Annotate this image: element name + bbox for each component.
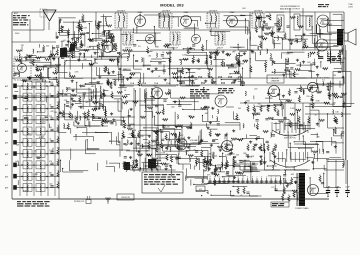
wire: [73, 37, 80, 39]
junction: [135, 90, 136, 91]
switch contact: [21, 85, 22, 86]
capacitor C58: [197, 60, 200, 61]
wire: [275, 37, 283, 39]
wire: [342, 29, 345, 31]
capacitor C77: [109, 59, 112, 60]
wire: [311, 134, 318, 136]
switch contact: [33, 108, 34, 109]
wire: [12, 95, 120, 97]
wire: [168, 68, 190, 70]
svg-text:1ST FM IF: 1ST FM IF: [117, 11, 126, 13]
coil L116: [185, 176, 186, 180]
wire: [314, 46, 338, 48]
resistor R204: [298, 95, 300, 102]
resistor R225: [214, 178, 216, 185]
wire: [313, 154, 315, 158]
junction: [327, 113, 328, 114]
ground: [208, 167, 211, 170]
resistor R172: [206, 162, 212, 164]
coil L73: [66, 87, 67, 91]
coil L60: [273, 40, 274, 44]
ground: [191, 75, 194, 78]
capacitor C31: [246, 192, 249, 193]
wire: [50, 62, 52, 68]
capacitor C112: [176, 158, 179, 159]
wire: [96, 25, 106, 27]
wire: [77, 111, 79, 120]
tuner coil L_t6b: [40, 151, 41, 158]
resistor R127: [89, 63, 95, 65]
wire: [207, 109, 209, 121]
wire: [90, 89, 92, 101]
resistor R10: [57, 113, 59, 120]
terminal blob: [13, 140, 17, 145]
resistor R191: [268, 117, 274, 119]
junction: [269, 96, 270, 97]
wire: [23, 57, 45, 59]
resistor R95: [276, 25, 282, 27]
wire: [298, 124, 300, 141]
resistor R155: [186, 127, 192, 129]
ground: [254, 143, 257, 146]
wire: [311, 71, 313, 78]
junction: [228, 67, 229, 68]
wire: [222, 176, 235, 178]
tuner coil L_t9b: [40, 185, 41, 192]
svg-text:2!/A: 2!/A: [228, 76, 233, 79]
switch contact: [21, 119, 22, 120]
resistor R247: [214, 174, 220, 176]
wire: [250, 170, 260, 172]
resistor R118: [27, 55, 32, 57]
wire: [128, 50, 153, 52]
junction: [310, 177, 311, 178]
wire: [28, 76, 51, 78]
ground: [77, 122, 80, 125]
coil L135: [323, 149, 324, 153]
ground: [165, 167, 168, 170]
wire: [223, 20, 249, 22]
tuner section box: [36, 93, 45, 101]
wire: [137, 168, 139, 170]
resistor R92: [258, 36, 264, 38]
wire: [103, 94, 105, 111]
ground: [229, 152, 232, 155]
capacitor C44: [161, 55, 164, 56]
wire: [314, 12, 316, 50]
svg-text:.002: .002: [204, 113, 208, 115]
svg-text:120K: 120K: [33, 174, 38, 176]
junction: [290, 143, 291, 144]
resistor R241: [71, 94, 77, 96]
wire: [340, 58, 342, 60]
resistor R153: [150, 164, 152, 171]
ground: [233, 176, 236, 179]
resistor R104: [250, 65, 252, 72]
wire: [43, 12, 45, 30]
resistor R215: [122, 130, 124, 137]
junction: [294, 141, 295, 142]
wire: [248, 165, 256, 167]
ground: [233, 79, 236, 82]
wire: [227, 144, 233, 146]
ground: [50, 54, 53, 57]
junction: [95, 59, 96, 60]
ground: [169, 165, 172, 168]
wire: [223, 178, 225, 184]
ground: [98, 76, 101, 79]
junction: [342, 77, 343, 78]
junction: [245, 18, 246, 19]
wire: [343, 76, 345, 84]
capacitor C138: [326, 152, 329, 153]
resistor R49: [238, 60, 240, 67]
coil L77: [91, 96, 92, 100]
wire: [155, 32, 157, 47]
wire: [286, 123, 300, 125]
wire: [246, 39, 248, 50]
capacitor C89: [155, 106, 158, 107]
wire: [69, 106, 73, 108]
wire: [103, 39, 105, 48]
svg-text:.01: .01: [49, 139, 51, 141]
wire: [145, 98, 169, 100]
junction: [267, 93, 268, 94]
resistor R227: [323, 68, 329, 70]
resistor R78: [173, 77, 179, 79]
junction: [170, 156, 171, 157]
wire: [242, 138, 263, 140]
wire: [123, 53, 129, 55]
wire: [197, 20, 199, 26]
junction: [230, 191, 231, 192]
wire: [294, 103, 296, 130]
wire: [185, 27, 196, 29]
wire: [126, 150, 150, 152]
wire: [296, 64, 313, 66]
svg-text:8: 8: [252, 177, 253, 179]
junction: [132, 167, 133, 168]
wire: [159, 157, 167, 159]
wire: [261, 178, 263, 184]
switch contact: [21, 164, 22, 165]
resistor R33: [84, 49, 90, 51]
wire: [331, 137, 333, 146]
coil L137: [271, 133, 272, 137]
wire: [91, 68, 93, 84]
capacitor C143: [257, 137, 260, 138]
ground: [263, 20, 266, 23]
wire: [249, 135, 257, 137]
junction: [203, 87, 204, 88]
junction: [155, 154, 156, 155]
wire: [56, 81, 58, 83]
wire: [213, 59, 225, 61]
wire: [86, 125, 108, 127]
svg-text:.002: .002: [85, 102, 89, 104]
wire: [151, 148, 160, 150]
svg-text:.002: .002: [254, 89, 258, 91]
wire: [242, 170, 258, 172]
junction: [56, 77, 57, 78]
wire: [58, 17, 75, 19]
junction: [76, 82, 77, 83]
coil L87: [156, 140, 157, 144]
svg-text:CONT.: CONT.: [348, 6, 354, 8]
resistor R110: [14, 72, 20, 74]
svg-text:2.2M: 2.2M: [290, 108, 295, 110]
wire: [326, 158, 344, 160]
wire: [123, 77, 125, 86]
ground: [79, 52, 82, 55]
electrolytic capacitor: [326, 187, 330, 198]
wire: [152, 104, 164, 106]
wire top border: [12, 11, 344, 13]
resistor R56: [216, 49, 218, 56]
wire: [186, 54, 208, 56]
wire: [98, 23, 100, 39]
resistor R91: [269, 32, 275, 34]
wire: [55, 77, 57, 82]
junction: [145, 165, 146, 166]
junction: [23, 79, 24, 80]
note text: [327, 56, 341, 61]
junction: [211, 195, 212, 196]
wire: [131, 167, 138, 169]
wire: [115, 119, 122, 121]
wire: [58, 99, 60, 114]
wire tuner rail: [54, 86, 56, 196]
wire: [162, 147, 164, 152]
coil L134: [341, 112, 342, 116]
wire: [151, 60, 166, 62]
wire: [186, 68, 211, 70]
coil L102: [132, 161, 133, 165]
coil L119: [327, 52, 328, 56]
ground: [209, 121, 212, 124]
wire: [118, 71, 120, 81]
wire: [124, 85, 134, 87]
wire: [290, 71, 292, 78]
coil L104: [166, 146, 167, 150]
tuner section box: [36, 82, 45, 90]
wire: [167, 103, 192, 105]
wire: [153, 27, 155, 45]
wire: [290, 158, 306, 160]
svg-text:21/A: 21/A: [154, 82, 159, 85]
resistor R5: [56, 48, 58, 55]
svg-text:CHANGER: CHANGER: [271, 80, 280, 83]
svg-text:ANT.: ANT.: [14, 12, 19, 15]
note text: [318, 4, 329, 7]
resistor R75: [172, 73, 178, 75]
resistor R117: [36, 57, 42, 59]
wire: [91, 55, 93, 58]
wire: [48, 81, 50, 82]
wire: [207, 159, 209, 169]
capacitor C110: [300, 125, 303, 126]
wire: [329, 47, 331, 64]
RF transformer2: [70, 44, 75, 51]
wire: [294, 169, 307, 171]
coil L64: [40, 72, 41, 76]
coil L107: [170, 147, 171, 151]
IF transformer T3: [207, 13, 219, 28]
wire: [121, 74, 123, 83]
coil L115: [202, 179, 203, 183]
resistor R55: [235, 54, 237, 61]
wire: [131, 168, 133, 170]
resistor R254: [291, 177, 293, 184]
capacitor C69: [257, 17, 260, 18]
ground: [71, 89, 74, 92]
wire: [60, 34, 68, 36]
wire: [181, 85, 199, 87]
wire: [177, 17, 179, 27]
capacitor C52: [232, 81, 235, 82]
junction: [302, 47, 303, 48]
svg-text:6BA6: 6BA6: [184, 11, 189, 14]
resistor R113: [22, 80, 28, 82]
ground: [89, 39, 92, 42]
wire: [72, 47, 81, 49]
wire: [233, 163, 258, 165]
wire: [190, 51, 207, 53]
resistor R176: [225, 143, 227, 150]
coil L1: [281, 17, 282, 26]
tube V2: [181, 16, 192, 27]
capacitor C102: [195, 151, 198, 152]
wire: [249, 195, 261, 197]
wire: [14, 187, 58, 189]
note text: [218, 88, 235, 93]
wire: [75, 100, 96, 102]
coil L113: [205, 167, 206, 171]
tuner coil L_t6a: [27, 151, 28, 158]
wire: [144, 127, 158, 129]
wire: [343, 161, 345, 166]
wire: [326, 85, 333, 87]
resistor R266: [263, 131, 269, 133]
wire: [343, 103, 355, 105]
capacitor C116: [165, 147, 168, 148]
wire: [258, 16, 260, 27]
wire: [280, 176, 282, 185]
svg-text:6: 6: [261, 177, 262, 179]
svg-text:1W: 1W: [95, 63, 98, 65]
wire: [111, 36, 113, 51]
ground: [187, 146, 190, 149]
wire: [31, 81, 51, 83]
wire: [101, 53, 103, 60]
wire: [118, 110, 122, 112]
ground: [294, 181, 297, 184]
capacitor C65: [290, 68, 293, 69]
wire: [249, 59, 251, 64]
ground: [134, 159, 137, 162]
wire: [181, 128, 183, 145]
junction: [162, 146, 163, 147]
junction: [279, 89, 280, 90]
wire: [310, 193, 328, 195]
wire: [206, 52, 208, 65]
wire: [229, 67, 237, 69]
wire: [48, 68, 50, 79]
wire: [309, 178, 311, 194]
wire: [204, 93, 219, 95]
wire: [170, 140, 172, 145]
coil L59: [308, 53, 309, 57]
wire: [93, 118, 102, 120]
junction: [88, 119, 89, 120]
capacitor C4: [50, 84, 53, 85]
wire: [293, 167, 295, 171]
power transformer primary: [299, 173, 305, 206]
wire: [209, 178, 211, 184]
coil L99: [254, 109, 255, 113]
wire: [329, 81, 331, 91]
capacitor C51: [179, 82, 182, 83]
resistor R1: [80, 41, 82, 48]
junction: [58, 32, 59, 33]
wire: [313, 168, 327, 170]
wire: [133, 147, 156, 149]
wire: [333, 13, 342, 15]
wire tuner rail: [33, 86, 35, 196]
motor box: [271, 202, 289, 207]
switch contact: [46, 131, 47, 132]
wire: [154, 69, 165, 71]
wire: [170, 156, 178, 158]
wire: [201, 129, 203, 141]
wire: [76, 82, 78, 93]
wire: [102, 14, 104, 30]
capacitor C48: [192, 45, 195, 46]
switch contact: [46, 176, 47, 177]
wire: [175, 158, 200, 160]
wire: [224, 15, 246, 17]
wire: [177, 141, 179, 149]
wire: [91, 115, 93, 121]
capacitor C146: [252, 163, 255, 164]
wire: [319, 149, 321, 154]
resistor R239: [87, 109, 89, 116]
wire: [284, 178, 286, 184]
wire: [297, 194, 299, 200]
coil L33: [108, 31, 109, 35]
wire: [220, 156, 227, 158]
capacitor C39: [91, 40, 94, 41]
wire: [59, 113, 71, 115]
resistor R126: [114, 79, 116, 86]
wire: [209, 128, 218, 130]
resistor R103: [298, 26, 304, 28]
resistor R119: [32, 59, 34, 66]
resistor R18: [247, 144, 249, 151]
switch contact: [46, 119, 47, 120]
junction: [85, 125, 86, 126]
ground: [178, 139, 181, 142]
capacitor C43: [117, 52, 120, 53]
wire: [263, 139, 265, 151]
capacitor C38: [98, 21, 101, 22]
switch contact: [46, 85, 47, 86]
coil L53: [301, 36, 302, 40]
resistor R162: [156, 112, 162, 114]
ground: [294, 180, 297, 183]
wire: [251, 168, 258, 170]
wire: [83, 53, 85, 57]
